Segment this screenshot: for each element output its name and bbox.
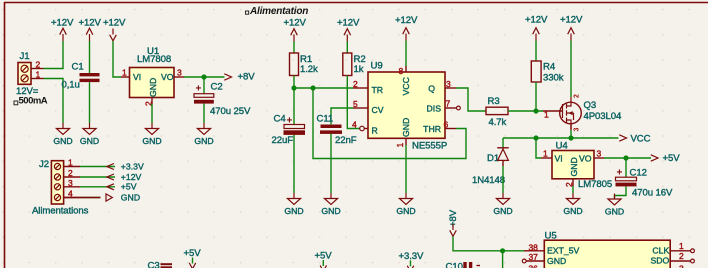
svg-text:1k: 1k — [354, 64, 364, 75]
wire +12V to U1 VI — [113, 41, 121, 77]
ground (J2 pin4, sideways) — [106, 192, 140, 202]
ground (U1) — [142, 123, 161, 146]
svg-text:VI: VI — [133, 72, 141, 82]
svg-text:0,1u: 0,1u — [62, 80, 80, 91]
svg-text:+12V: +12V — [79, 18, 102, 29]
label VCC — [619, 134, 650, 145]
svg-text:R3: R3 — [488, 96, 500, 107]
wire branch down — [502, 251, 504, 268]
ground (U9) — [396, 193, 415, 216]
wire gate — [543, 110, 563, 112]
svg-text:C10: C10 — [446, 262, 463, 268]
wire R1 to TR node — [293, 76, 295, 89]
svg-text:VI: VI — [555, 154, 563, 164]
wire J1 pin2 to +12V — [44, 41, 64, 69]
ground (C4) — [284, 193, 303, 216]
wire R4 to gate node — [535, 82, 537, 111]
svg-text:C11: C11 — [317, 114, 334, 125]
svg-text:+3.3V: +3.3V — [399, 251, 425, 262]
junction (C2 tap) — [201, 74, 206, 79]
junction (R4 / gate) — [533, 108, 538, 113]
wire R2 to 555 reset pin — [347, 76, 359, 129]
power +5V (bottom middle) — [315, 251, 333, 268]
svg-text:GND: GND — [547, 256, 566, 266]
svg-text:2: 2 — [68, 168, 73, 178]
svg-text:+12V: +12V — [103, 18, 126, 29]
ground (C11) — [321, 193, 340, 216]
svg-text:4P03L04: 4P03L04 — [584, 111, 622, 122]
wire +12V to R1 — [293, 42, 295, 54]
svg-text:C1: C1 — [72, 62, 84, 73]
power +12V (U9) — [395, 15, 418, 41]
wire C2 to GND — [203, 104, 205, 123]
svg-text:GND: GND — [401, 118, 411, 137]
svg-text:3: 3 — [177, 68, 182, 78]
svg-text:VCC: VCC — [631, 134, 651, 145]
svg-text:+5V: +5V — [121, 182, 137, 192]
svg-text:1: 1 — [122, 68, 127, 78]
wire +12V to Q3 source — [570, 41, 572, 98]
svg-text:+12V: +12V — [395, 15, 418, 26]
svg-text:GND: GND — [569, 157, 579, 176]
svg-text:GND: GND — [121, 192, 140, 202]
svg-text:37: 37 — [529, 252, 539, 262]
svg-text:1: 1 — [395, 143, 405, 148]
junction (R1 / C4) — [291, 85, 296, 90]
power +3.3V (bottom) — [399, 251, 425, 268]
wire VCC rail — [503, 137, 619, 139]
power +5V (J2 pin3) — [107, 182, 137, 192]
power +12V (R1) — [284, 18, 307, 42]
text 500mA — [14, 96, 48, 107]
connector J1 — [16, 51, 44, 97]
ground (D1) — [493, 193, 512, 216]
svg-text:J2: J2 — [39, 159, 49, 170]
wire junction to C2 — [203, 77, 205, 94]
power +12V (R4) — [525, 15, 548, 41]
svg-text:4.7k: 4.7k — [489, 117, 507, 128]
junction (U5 feed) — [500, 248, 505, 253]
svg-text:36: 36 — [529, 264, 539, 268]
wire U1 GND pin to ground — [151, 104, 153, 123]
svg-text:C4: C4 — [274, 114, 287, 125]
svg-text:2: 2 — [36, 60, 41, 70]
svg-text:8: 8 — [399, 66, 404, 76]
capacitor C12 470u 16V — [616, 168, 673, 199]
power +12V (U1 input, down arrow) — [103, 18, 126, 41]
svg-text:1: 1 — [544, 110, 549, 120]
svg-text:CV: CV — [372, 105, 384, 115]
wire junction to C12 — [625, 158, 627, 177]
svg-text:Q3: Q3 — [584, 100, 597, 111]
capacitor C2 470u 25V — [194, 82, 251, 118]
svg-text:330k: 330k — [543, 73, 564, 84]
svg-text:+12V: +12V — [284, 18, 307, 29]
svg-text:+5V: +5V — [184, 248, 202, 259]
power +12V (C1) — [79, 18, 102, 42]
wire R3 to Q3 gate node — [508, 110, 543, 112]
svg-text:TR: TR — [372, 85, 384, 95]
ground (J1) — [53, 123, 72, 146]
timer U9 NE555P — [352, 61, 460, 152]
svg-text:38: 38 — [529, 243, 539, 253]
svg-text:2: 2 — [679, 251, 684, 261]
svg-text:+8V: +8V — [238, 72, 256, 83]
capacitor C1 0,1u — [62, 62, 100, 91]
ground (U4) — [563, 193, 582, 216]
svg-text:EXT_5V: EXT_5V — [547, 246, 580, 256]
power +5V (U4 output) — [651, 153, 680, 164]
svg-text:Alimentation: Alimentation — [249, 6, 308, 17]
wire +8V to U5 EXT_5V — [453, 237, 524, 251]
svg-text:3: 3 — [68, 178, 73, 188]
svg-text:1: 1 — [36, 70, 41, 80]
wire U4 GND to ground — [572, 186, 574, 193]
power +5V (bottom left) — [184, 248, 202, 268]
wire U4 VO to +5V — [604, 157, 651, 159]
svg-text:+12V: +12V — [525, 15, 548, 26]
svg-text:22nF: 22nF — [335, 135, 357, 146]
wire +12V to R2 — [346, 42, 348, 54]
wire C12 to GND — [615, 186, 627, 198]
wire CV to C11 — [331, 108, 353, 124]
resistor R4 330k — [531, 61, 563, 84]
wire C1 to GND — [89, 82, 91, 123]
resistor R2 1k — [343, 53, 366, 76]
svg-text:THR: THR — [423, 124, 441, 134]
svg-text:U9: U9 — [371, 61, 383, 72]
transistor Q3 4P03L04 — [560, 94, 622, 132]
svg-text:D1: D1 — [487, 153, 499, 164]
ground (C1) — [80, 123, 99, 146]
svg-text:2: 2 — [574, 94, 581, 98]
power +12V (Q3) — [560, 15, 583, 41]
capacitor C10 (partial) — [446, 262, 481, 268]
regulator U1 LM7808 — [121, 46, 184, 106]
wire J2 pin3 — [80, 186, 115, 188]
wire Q3 drain down — [570, 124, 572, 130]
svg-text:LM7808: LM7808 — [137, 54, 171, 65]
power +12V (J2 pin2) — [107, 172, 142, 182]
wire C11 to GND — [330, 134, 332, 193]
svg-text:LM7805: LM7805 — [578, 179, 612, 190]
ic U5 (partial) — [522, 231, 694, 268]
svg-text:+12V: +12V — [51, 18, 74, 29]
svg-text:CLK: CLK — [652, 245, 669, 255]
junction (U4 branch) — [533, 135, 538, 140]
wire +12V to U9 VCC — [405, 41, 407, 67]
svg-text:500mA: 500mA — [19, 96, 48, 107]
svg-text:Alimentations: Alimentations — [32, 206, 89, 217]
wire U1 VO to +8V — [184, 76, 225, 78]
svg-text:+5V: +5V — [315, 251, 333, 262]
svg-text:3: 3 — [574, 128, 581, 132]
wire J2 pin4 — [80, 197, 101, 199]
svg-text:+3.3V: +3.3V — [121, 161, 144, 171]
wire THR loop — [313, 88, 466, 159]
svg-text:1: 1 — [543, 149, 548, 159]
svg-text:1: 1 — [68, 158, 73, 168]
wire +12V to C1 — [89, 41, 91, 73]
svg-text:Q: Q — [428, 84, 435, 94]
junction (Q3 drain) — [568, 135, 573, 140]
svg-text:1: 1 — [679, 241, 684, 251]
wire J2 pin2 — [80, 176, 115, 178]
junction (THR branch) — [310, 85, 315, 90]
svg-text:VO: VO — [579, 154, 592, 164]
svg-text:7: 7 — [446, 99, 451, 109]
power +12V (J1) — [51, 18, 74, 42]
ground (C2) — [194, 123, 213, 146]
power +8V (output label) — [224, 72, 255, 83]
wire TR node horizontal — [294, 87, 353, 89]
svg-text:470u 16V: 470u 16V — [632, 188, 673, 199]
resistor R3 4.7k — [486, 96, 508, 128]
svg-text:C3: C3 — [148, 261, 160, 268]
capacitor C4 22uF — [272, 114, 306, 147]
svg-text:VCC: VCC — [401, 77, 411, 95]
svg-text:+12V: +12V — [560, 15, 583, 26]
svg-text:NE555P: NE555P — [412, 141, 447, 152]
svg-text:+: + — [196, 84, 202, 95]
svg-text:J1: J1 — [20, 51, 30, 62]
svg-text:470u 25V: 470u 25V — [210, 106, 251, 117]
svg-text:3: 3 — [679, 264, 684, 268]
svg-text:3: 3 — [446, 79, 451, 89]
ground (C12) — [605, 194, 624, 217]
wire +12V to R4 — [535, 41, 537, 62]
svg-text:5: 5 — [353, 99, 358, 109]
svg-text:1N4148: 1N4148 — [472, 175, 505, 186]
wire Q output to R3 — [456, 88, 486, 111]
resistor R1 1.2k — [290, 53, 319, 76]
svg-text:22uF: 22uF — [272, 135, 294, 146]
wire C4 branch — [293, 88, 295, 124]
svg-text:DIS: DIS — [427, 104, 442, 114]
wire D1 to GND — [502, 166, 504, 193]
junction (C12 tap) — [623, 155, 628, 160]
wire VCC to U4 VI — [536, 138, 541, 158]
svg-text:R: R — [372, 126, 378, 136]
wire U9 GND to ground — [405, 145, 407, 193]
wire C4 to GND — [293, 135, 295, 193]
diode D1 1N4148 — [472, 138, 509, 186]
power +12V (R2) — [337, 18, 360, 42]
capacitor C3 (partial) — [148, 261, 173, 268]
svg-text:1.2k: 1.2k — [300, 64, 318, 75]
wire J1 pin1 to GND — [44, 79, 64, 124]
regulator U4 LM7805 — [541, 141, 612, 191]
svg-text:3: 3 — [597, 149, 602, 159]
wire J2 pin1 — [80, 166, 115, 168]
svg-text:4: 4 — [352, 120, 357, 130]
svg-text:+12V: +12V — [337, 18, 360, 29]
svg-text:GND: GND — [148, 78, 158, 97]
capacitor C11 22nF — [317, 114, 357, 147]
power +3.3V (J2 pin1) — [107, 161, 144, 171]
svg-text:C2: C2 — [211, 82, 223, 93]
connector J2 — [39, 158, 80, 205]
svg-text:SDO: SDO — [650, 256, 669, 266]
svg-text:VO: VO — [161, 72, 174, 82]
svg-text:+5V: +5V — [663, 153, 681, 164]
power +8V (feed to U5, rotated) — [448, 209, 459, 236]
svg-text:6: 6 — [444, 120, 449, 130]
svg-text:2: 2 — [353, 79, 358, 89]
svg-text:+12V: +12V — [121, 172, 142, 182]
svg-text:R4: R4 — [543, 62, 556, 73]
